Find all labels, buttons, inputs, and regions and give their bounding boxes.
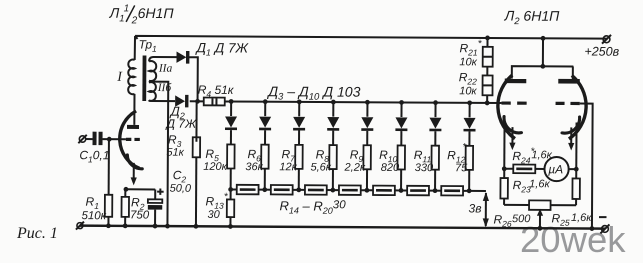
wire: center tap of secondary down to ground rail (148, 82, 168, 227)
svg-text:120к: 120к (203, 161, 227, 173)
potentiometer R26 (504, 200, 576, 210)
tube L1 grid (126, 138, 140, 141)
node: ladder top junction col 6 (399, 100, 404, 105)
svg-text:Тр1: Тр1 (138, 37, 157, 53)
wire: chain output corner to 3v arrow (469, 190, 486, 192)
wire: node to R4 (190, 100, 204, 102)
svg-text:Л1: Л1 (109, 5, 125, 25)
diode D1 (176, 51, 189, 64)
node: center-tap on ground rail (165, 224, 170, 229)
resistor R14 (chain) (231, 185, 265, 195)
tube L1 envelope (half 6Н1П) (120, 111, 140, 169)
svg-text:C10,1: C10,1 (79, 148, 109, 164)
resistor R17 (chain) (333, 185, 367, 195)
transformer Tr1 core (142, 55, 146, 101)
svg-text:µА: µА (548, 162, 563, 176)
resistor R9 (363, 145, 371, 190)
svg-text:R14 – R2030: R14 – R2030 (280, 198, 347, 216)
tube L1 cathode lead arrow (131, 163, 137, 186)
tube L2 envelope left arc (498, 75, 516, 139)
node: rail junction above R21 (485, 36, 490, 41)
resistor R21* (1W mark) (483, 38, 493, 67)
diode D7 (361, 102, 373, 145)
node: ladder bottom junction col 1 (228, 187, 233, 192)
node: R1 on ground rail (106, 223, 111, 228)
resistor R24* (0.5W mark) (504, 164, 544, 173)
terminal +250V (602, 35, 611, 44)
resistor R22 (1W mark) (482, 67, 492, 103)
resistor R2 (121, 189, 129, 226)
tube L2 left grid (501, 101, 526, 104)
svg-text:I: I (116, 70, 123, 85)
svg-text:1,6к: 1,6к (571, 212, 592, 224)
svg-text:5,6к: 5,6к (310, 161, 331, 173)
terminal: minus right (600, 224, 609, 233)
svg-text:30: 30 (207, 209, 220, 221)
resistor R15 (chain) (265, 185, 299, 195)
wire: right grid to ground rail (579, 103, 593, 228)
svg-text:R21*: R21* (459, 38, 482, 57)
tube L2 right cathode (562, 117, 580, 133)
wire: R4 to ladder top rail / L2 grid (225, 101, 502, 103)
resistor R19 (chain) (401, 186, 435, 196)
node: D1/D2/R3 junction (195, 99, 200, 104)
node: ladder top junction col 2 (263, 99, 268, 104)
terminal: ground left (76, 222, 84, 230)
svg-text:3в: 3в (469, 201, 482, 215)
svg-text:2: 2 (131, 15, 138, 26)
tube L2 right cathode arrow (568, 127, 574, 150)
node: ladder bottom junction col 2 (262, 187, 267, 192)
wire: right cathode tail to bridge (575, 122, 577, 169)
svg-text:330: 330 (415, 162, 434, 174)
node: right grid line on ground rail (590, 226, 595, 231)
wire: D1 output down to D2/R4 node (189, 57, 198, 101)
svg-text:Д 7Ж: Д 7Ж (164, 117, 197, 131)
transformer Tr1 secondary winding IIb (149, 82, 156, 101)
tube L1 anode (127, 125, 139, 129)
svg-text:20wek: 20wek (520, 219, 626, 258)
diode D8 (395, 102, 407, 145)
tube L2 right grid (556, 102, 580, 105)
transformer Tr1 secondary winding IIa (149, 61, 156, 81)
resistor R8 (329, 145, 337, 190)
capacitor C1 (86, 132, 126, 146)
tube L1 cathode (127, 155, 142, 169)
svg-text:R4 51к: R4 51к (198, 83, 235, 99)
capacitor C2 (electrolytic) (148, 189, 163, 226)
node: R13 on ground rail (228, 224, 233, 229)
svg-text:IIб: IIб (157, 82, 173, 94)
svg-text:R26: R26 (493, 212, 511, 228)
resistor R13* (227, 189, 235, 226)
wire: B+ drop to Tr1 primary and L1 anode (133, 36, 136, 125)
resistor R4 (2W marks) (204, 98, 225, 106)
node: ladder bottom junction col 3 (296, 187, 301, 192)
wire: anode connection of L2 to rail (512, 38, 574, 79)
resistor R6 (261, 145, 269, 190)
tube L2 right anode (558, 79, 580, 84)
svg-text:R1: R1 (86, 195, 100, 211)
node: R22 / ladder / L2 grid junction (485, 101, 490, 106)
terminal: input (78, 135, 86, 143)
node: rail junction above L2 anodes (541, 36, 546, 41)
svg-text:Д3 – Д10 Д 103: Д3 – Д10 Д 103 (266, 83, 360, 103)
node: ladder bottom junction col 4 (330, 188, 335, 193)
node: ladder bottom junction col 6 (399, 188, 404, 193)
svg-text:10к: 10к (459, 56, 477, 68)
node: ladder bottom junction col 7 (433, 188, 438, 193)
node: C2 on ground rail (153, 224, 158, 229)
node: ladder top junction col 1 (229, 99, 234, 104)
svg-text:Рис. 1: Рис. 1 (16, 225, 58, 242)
transformer Tr1 primary winding I (128, 60, 135, 95)
node: ladder bottom junction col 8 (467, 188, 472, 193)
resistor R18 (chain) (367, 186, 401, 196)
svg-text:75: 75 (455, 162, 468, 174)
svg-text:*: * (462, 142, 467, 153)
node: anode wire junction (540, 64, 545, 69)
wire: IIa top lead to D1 (149, 57, 176, 62)
svg-text:IIа: IIа (158, 63, 173, 75)
tube L2 envelope right arc (569, 75, 586, 139)
resistor R20 (chain) (435, 186, 469, 196)
diode D5 (293, 102, 305, 145)
svg-text:510к: 510к (81, 210, 106, 222)
node: ladder top junction col 7 (433, 100, 438, 105)
label + of C2 (157, 188, 164, 194)
svg-text:2,2к: 2,2к (344, 162, 366, 174)
node: right bridge junction (574, 167, 579, 172)
tube L2 left cathode arrow (509, 127, 515, 150)
svg-text:750: 750 (130, 209, 150, 221)
resistor R5 (227, 144, 235, 189)
wire: IIb bottom lead to D2 (149, 99, 175, 102)
svg-text:Л2 6Н1П: Л2 6Н1П (504, 8, 561, 28)
resistor R1 (105, 139, 113, 226)
node: ladder bottom junction col 5 (365, 188, 370, 193)
node: ladder top junction col 3 (297, 99, 302, 104)
svg-text:R25: R25 (551, 211, 569, 227)
svg-text:12к: 12к (279, 161, 297, 173)
svg-text:10к: 10к (459, 85, 477, 97)
diode D2 (175, 95, 188, 108)
node: wiper on ground rail (538, 226, 543, 231)
wire: left cathode tail to bridge (503, 122, 505, 169)
meter µA (544, 157, 576, 181)
svg-text:820: 820 (381, 162, 400, 174)
node: left bridge junction (502, 166, 507, 171)
node: R2 top (124, 187, 129, 192)
node: R3 on ground rail (194, 224, 199, 229)
resistor R7 (295, 145, 303, 190)
svg-text:500: 500 (512, 213, 531, 225)
resistor R3 (192, 101, 200, 226)
diode D6 (327, 102, 339, 145)
node: grid / R1 junction (107, 137, 112, 142)
tube L2 left anode (505, 79, 527, 84)
svg-text:Д1 Д 7Ж: Д1 Д 7Ж (194, 40, 249, 58)
svg-text:1,6к: 1,6к (529, 178, 550, 190)
svg-text:6Н1П: 6Н1П (138, 5, 175, 21)
resistor R23 (500, 169, 508, 205)
resistor R12 (465, 146, 473, 191)
diode D9 (429, 103, 441, 146)
resistor R16 (chain) (299, 185, 333, 195)
diode D4 (259, 102, 271, 145)
svg-text:+250в: +250в (584, 45, 619, 59)
node: ladder top junction col 5 (365, 100, 370, 105)
svg-text:51к: 51к (166, 147, 184, 159)
svg-text:R22: R22 (459, 70, 477, 86)
svg-text:R13*: R13* (206, 192, 229, 211)
resistor R10 (397, 145, 405, 190)
label minus (599, 216, 606, 218)
diode D3 (225, 101, 237, 144)
annotation: 3в voltage arrow (483, 192, 489, 228)
tube L2 left cathode (504, 117, 522, 133)
potentiometer R26 wiper arrow (537, 209, 543, 229)
node: ladder top junction col 8 (467, 100, 472, 105)
resistor R25 (572, 169, 580, 205)
wire: bottom ground rail (80, 226, 605, 229)
diode D10 (463, 103, 475, 146)
svg-text:36к: 36к (245, 161, 263, 173)
svg-text:50,0: 50,0 (170, 183, 192, 195)
svg-text:1: 1 (124, 3, 130, 14)
resistor R11 (431, 146, 439, 191)
node: R2 on ground rail (123, 223, 128, 228)
wire: cathode network (R2 / C2 top) (125, 188, 155, 190)
node: ladder top junction col 4 (331, 100, 336, 105)
wire: top +250V rail (135, 36, 607, 42)
